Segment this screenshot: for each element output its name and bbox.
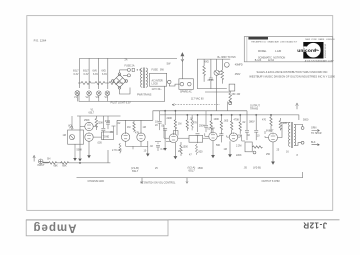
bus drop wire extra1 <box>159 111 161 121</box>
svg-text:250K: 250K <box>84 119 90 122</box>
cathode resistor tail c <box>195 144 197 155</box>
volume pot symbol <box>69 135 74 140</box>
extra resistor R7 <box>191 115 193 130</box>
fuse F1 <box>127 68 130 71</box>
filter resistor R27 <box>203 59 206 82</box>
svg-text:380V: 380V <box>249 121 255 124</box>
svg-text:1M: 1M <box>63 134 66 137</box>
title block left divider <box>246 37 248 62</box>
rectifier socket pin A <box>180 82 184 86</box>
svg-text:LOCK: LOCK <box>152 83 159 86</box>
svg-text:6SL7: 6SL7 <box>89 111 95 114</box>
input grid resistor R2 <box>61 162 111 165</box>
bottom fold line <box>26 219 340 221</box>
svg-text:J-12R: J-12R <box>275 50 282 53</box>
phase splitter resistor R12 <box>210 115 212 133</box>
svg-text:B-123 12-64: B-123 12-64 <box>255 59 275 62</box>
svg-text:SH: SH <box>47 158 51 161</box>
lamp stem V2 <box>88 96 90 102</box>
standby box <box>229 84 235 91</box>
heater lamp V2 <box>87 91 92 96</box>
svg-text:TRANS: TRANS <box>250 107 259 110</box>
svg-text:500K: 500K <box>77 149 83 152</box>
rectifier tube electrodes <box>218 71 222 74</box>
svg-text:450V: 450V <box>235 73 241 76</box>
svg-text:B+ 380V TO 6V6: B+ 380V TO 6V6 <box>218 56 237 59</box>
svg-text:SALES & EXCLUSIVE DISTRIBUTION: SALES & EXCLUSIVE DISTRIBUTION THRU UNIC… <box>257 70 328 74</box>
heater dropping resistor chain R30 <box>78 82 123 85</box>
coupling cap C4 <box>158 122 162 131</box>
svg-text:VOL: VOL <box>68 125 73 128</box>
tube V3B circle <box>209 132 217 140</box>
svg-text:WESTBURY MUSIC DIVISION OF GUL: WESTBURY MUSIC DIVISION OF GULTON INDUST… <box>249 75 335 79</box>
grid resistor R18 <box>279 118 281 130</box>
svg-text:CHASSIS GND: CHASSIS GND <box>88 180 105 183</box>
tube V3C circle <box>229 133 237 141</box>
tube V3C electrodes <box>232 133 236 139</box>
dropping resistor R29 <box>229 91 232 103</box>
svg-text:250: 250 <box>266 153 271 156</box>
svg-text:.005: .005 <box>97 142 102 145</box>
svg-text:BLK: BLK <box>311 141 316 144</box>
svg-text:TO SPKR: TO SPKR <box>311 132 322 135</box>
svg-text:6V6GT: 6V6GT <box>266 129 274 132</box>
tube V3A circle <box>169 134 178 143</box>
svg-text:220K: 220K <box>167 117 173 120</box>
svg-text:1500: 1500 <box>183 146 189 149</box>
svg-text:OUTPUT 8 OHM: OUTPUT 8 OHM <box>262 180 280 183</box>
svg-text:MUSIC DIVISION: MUSIC DIVISION <box>324 44 326 59</box>
tube V1B triode <box>85 133 93 141</box>
junction dots <box>164 110 165 111</box>
svg-text:A GULTON SUBSIDIARY CORP: A GULTON SUBSIDIARY CORP <box>305 59 335 62</box>
feedback resistor R19 <box>253 146 263 148</box>
svg-text:.005: .005 <box>224 120 229 123</box>
sheet border frame <box>27 16 333 211</box>
heater supply bus wire <box>80 58 177 88</box>
driver resistor R14 <box>231 115 233 134</box>
grid line wire <box>117 119 153 121</box>
heater lamp V1 <box>75 91 80 96</box>
tone cap C3 <box>112 126 116 132</box>
wire primary bottom <box>123 74 127 76</box>
tube V3A electrodes <box>171 134 175 140</box>
heater lamp V4 <box>105 91 110 96</box>
input jack chassis arrow <box>33 156 35 162</box>
svg-text:PILOT LIGHT 6.3V: PILOT LIGHT 6.3V <box>111 101 132 104</box>
wire grid riser <box>107 150 109 163</box>
svg-text:220K: 220K <box>236 154 242 157</box>
tube V3B electrodes <box>211 132 215 138</box>
speaker terminal a <box>301 127 304 130</box>
volume wiper wire <box>71 116 73 130</box>
tube V2B triode <box>137 133 145 141</box>
svg-text:P.G. 1264: P.G. 1264 <box>34 39 47 43</box>
svg-text:6.3V: 6.3V <box>74 73 79 76</box>
svg-text:470K: 470K <box>234 119 240 122</box>
volume ground <box>78 159 82 162</box>
svg-text:PWR TRANS: PWR TRANS <box>137 93 152 96</box>
cathode resistor R4 <box>102 116 104 140</box>
wire jack to grid <box>43 161 49 163</box>
extra drop wire x206 <box>205 111 207 125</box>
driver cap C9 <box>245 131 249 141</box>
heater drop wire V3 <box>98 58 100 89</box>
svg-text:1M: 1M <box>127 126 130 129</box>
screen bypass wire <box>164 138 166 148</box>
svg-text:47K: 47K <box>135 132 140 135</box>
svg-text:470: 470 <box>262 119 267 122</box>
chassis arrow b <box>186 178 188 184</box>
coupling cap C1 <box>101 129 105 131</box>
heater lamp V3 <box>97 91 102 96</box>
title block border <box>244 37 332 62</box>
bypass cap C6 <box>196 134 200 144</box>
output transformer T2 primary <box>289 123 291 147</box>
lower line fuse F2 <box>127 74 130 77</box>
volume pot vertical wire <box>79 116 81 158</box>
cathode ground V1 <box>87 141 91 158</box>
volume lower ground <box>73 158 77 161</box>
svg-text:1M: 1M <box>224 148 227 151</box>
svg-text:220K: 220K <box>98 121 104 124</box>
wire transformer top terminal <box>294 125 302 127</box>
lamp stem V3 <box>98 96 100 102</box>
cathode resistor tail a <box>119 143 121 153</box>
svg-text:47K: 47K <box>193 122 198 125</box>
tone line wire <box>77 115 121 117</box>
line plug P1 <box>168 80 171 83</box>
output grid wire <box>255 115 257 130</box>
logo swash <box>314 49 318 52</box>
chassis arrow a <box>141 178 143 184</box>
splitter link wires <box>205 133 219 136</box>
link wire V3B plate <box>211 128 215 132</box>
svg-text:1M: 1M <box>143 126 146 129</box>
speaker terminal b <box>301 141 304 144</box>
svg-text:5000: 5000 <box>303 119 309 122</box>
link wire box to V3B <box>203 137 209 139</box>
tube V1A electrodes <box>87 122 91 128</box>
dropper vertical wire b <box>197 115 199 132</box>
svg-text:6.3V: 6.3V <box>102 73 107 76</box>
driver link wire <box>227 135 240 137</box>
svg-text:117 VAC 60: 117 VAC 60 <box>191 98 204 101</box>
svg-text:6SL7: 6SL7 <box>189 168 196 172</box>
wire interlock to plug <box>166 81 169 83</box>
tube V2 ground <box>146 141 150 157</box>
driver resistor R15 <box>239 115 241 134</box>
lamp stem V1 <box>76 95 78 101</box>
svg-text:(V2-B): (V2-B) <box>253 165 261 169</box>
grid stopper wires V3 <box>164 125 169 138</box>
output grid wire link <box>265 131 269 138</box>
svg-text:20 20: 20 20 <box>208 79 215 82</box>
svg-text:117V 60~: 117V 60~ <box>152 88 163 91</box>
wire bridge to fuse <box>119 70 121 73</box>
svg-text:40MFD: 40MFD <box>235 64 243 67</box>
fuse riser wire with arrow <box>181 53 184 79</box>
svg-text:unicord: unicord <box>297 48 316 54</box>
splitter cap C8 <box>219 134 223 143</box>
tube V2A electrodes <box>124 133 128 139</box>
logo notch <box>303 46 306 52</box>
svg-text:68K: 68K <box>62 165 67 168</box>
output grid cap C10 <box>254 131 258 141</box>
bias node circle <box>253 151 256 154</box>
speaker lead arrow a <box>312 129 320 131</box>
bias box <box>245 142 252 152</box>
svg-text:FUSE SW: FUSE SW <box>152 69 165 72</box>
heater return wire <box>79 86 165 101</box>
tube V2B electrodes <box>139 133 143 139</box>
power switch SW1 <box>132 68 134 71</box>
tube V3 ground <box>174 143 176 157</box>
bottom ground bus <box>77 172 303 178</box>
bridge rectifier D1-D4 <box>111 73 127 89</box>
svg-text:NEW YORK PARIS LONDON: NEW YORK PARIS LONDON <box>305 38 335 41</box>
volume control VR1 box <box>68 130 84 144</box>
logo black box <box>303 42 323 59</box>
output tube V4 circle <box>269 133 278 142</box>
wire transformer bottom terminal <box>294 143 301 146</box>
bypass cap C5 <box>163 129 167 139</box>
switch node dots <box>137 69 138 70</box>
coupling network box <box>189 135 203 142</box>
AC interlock box <box>150 73 167 86</box>
svg-text:220: 220 <box>283 122 288 125</box>
svg-text:GRN: GRN <box>311 127 317 130</box>
wire plate to transformer <box>278 123 291 138</box>
screen resistor R17 <box>270 115 272 132</box>
svg-text:INPUT: INPUT <box>37 164 45 167</box>
rectifier socket pin B <box>188 82 192 86</box>
plate feed bus wire <box>160 115 299 120</box>
svg-text:6X5: 6X5 <box>205 61 210 64</box>
svg-text:Ampeg: Ampeg <box>33 222 77 234</box>
input grid resistor R1 <box>49 162 62 165</box>
dropper vertical wire a <box>164 111 166 125</box>
tube V1B electrodes <box>87 133 91 139</box>
svg-text:THE AMPEG CO GRAND AVE LONG: THE AMPEG CO GRAND AVE LONG ISLAND N Y <box>251 41 298 44</box>
heater drop wire V2 <box>88 58 90 89</box>
driver ground <box>229 141 231 154</box>
filter left rail <box>197 59 230 89</box>
dropper resistor R9 <box>186 115 188 131</box>
output tube ground <box>272 142 274 162</box>
splitter ground <box>212 141 214 156</box>
wire primary top <box>120 69 128 71</box>
V2 plate link extend <box>141 145 148 147</box>
B+ dashed leader <box>172 104 220 106</box>
svg-text:AC SWITCH ON VOL CONTROL: AC SWITCH ON VOL CONTROL <box>140 181 176 184</box>
tone cap C2 <box>106 116 110 129</box>
svg-text:6SL7: 6SL7 <box>132 169 139 173</box>
tube V4 electrodes <box>271 133 275 139</box>
extra cap C7 <box>204 126 208 133</box>
B+ feed vertical <box>227 102 229 111</box>
V2 plate wires <box>126 141 141 149</box>
svg-text:56K: 56K <box>216 144 221 147</box>
svg-text:MODEL: MODEL <box>258 50 267 53</box>
svg-text:150: 150 <box>231 93 236 96</box>
svg-text:6.3V: 6.3V <box>84 73 89 76</box>
svg-text:SPARE AC: SPARE AC <box>180 91 192 94</box>
heater drop wire V4 <box>107 58 109 89</box>
dropper resistor R8 <box>174 111 176 134</box>
B+ riser arrow <box>296 103 299 109</box>
OC3 regulator circle <box>224 62 229 67</box>
link wire V3A plate <box>174 130 179 135</box>
svg-text:6.3V: 6.3V <box>93 73 98 76</box>
coupling wires V1 to V2 <box>117 120 141 135</box>
speaker lead arrow b <box>312 144 320 146</box>
wire rect socket to interlock <box>169 84 180 86</box>
cathode resistor tail b <box>156 143 160 152</box>
cathode resistor R11 <box>180 142 182 156</box>
tube V2A triode <box>121 133 129 141</box>
title block header bar <box>248 37 268 40</box>
rectifier socket box <box>179 79 194 90</box>
filter cap C20A <box>209 59 213 89</box>
driver vertical wire <box>246 111 248 130</box>
link wire V3A to coupling box <box>178 137 189 139</box>
svg-text:1500: 1500 <box>198 167 204 170</box>
svg-text:J-12R: J-12R <box>303 220 327 229</box>
svg-text:1M: 1M <box>178 123 181 126</box>
svg-text:100K: 100K <box>214 118 220 121</box>
logo circle <box>306 43 321 58</box>
power transformer T1 <box>120 68 148 95</box>
terminal E1 <box>229 102 232 105</box>
wire B+ takeoff <box>216 89 218 111</box>
Ampeg label box <box>26 220 168 236</box>
splitter resistor R13 <box>220 115 222 134</box>
tone box <box>102 132 114 140</box>
svg-text:2A: 2A <box>125 59 128 62</box>
svg-text:2.7K: 2.7K <box>112 149 117 152</box>
svg-text:2.2M: 2.2M <box>236 145 241 148</box>
svg-text:FUSE 2A: FUSE 2A <box>125 65 135 68</box>
plate resistor R3 <box>95 116 97 130</box>
lamp stem V4 <box>106 96 108 102</box>
cathode wire row <box>155 141 171 143</box>
filter second rail <box>205 91 230 93</box>
input jack J1 <box>33 156 49 164</box>
B+ bus wire upper <box>153 111 247 121</box>
svg-text:820: 820 <box>199 151 204 154</box>
tube V1A triode <box>85 122 93 130</box>
volume lower wire <box>74 144 76 158</box>
link wire V3C to output <box>238 135 245 141</box>
thermistor circle <box>214 70 219 75</box>
V1 cathode wire <box>80 125 102 138</box>
interstage resistor R5 <box>133 121 135 132</box>
wire bridge bottom <box>120 88 131 95</box>
input signal wire <box>43 162 49 164</box>
svg-text:TONE: TONE <box>103 135 110 138</box>
output transformer T2 secondary <box>294 125 296 146</box>
svg-text:68K: 68K <box>54 164 59 167</box>
filter resistor R28 <box>221 59 224 84</box>
filter bottom rail <box>197 88 227 90</box>
